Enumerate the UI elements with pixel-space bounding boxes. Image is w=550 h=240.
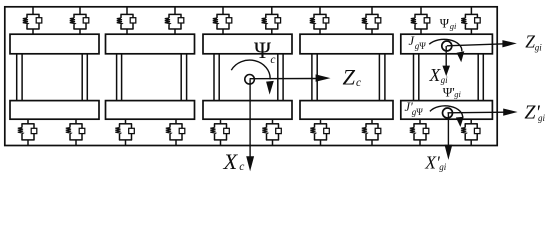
- svg-text:c: c: [356, 77, 361, 89]
- frame 2 legs (double struts): [117, 53, 187, 101]
- node: frame-5 bottom origin (circle): [443, 108, 453, 118]
- secondary suspension T3: spring-damper suspension unit at x=127: [117, 7, 136, 35]
- secondary suspension T6: spring-damper suspension unit at x=271.8: [262, 7, 281, 35]
- svg-text:Ψ: Ψ: [254, 38, 271, 63]
- pitch rotation arc psi'_gi (bottom): [430, 106, 463, 118]
- svg-text:Ψ: Ψ: [416, 107, 423, 117]
- frame 3 legs (double struts): [214, 53, 283, 101]
- axis X'_gi (arrow down): [447, 113, 449, 146]
- svg-text:gi: gi: [535, 42, 543, 52]
- node: frame-5 top origin (circle): [442, 41, 452, 51]
- svg-text:c: c: [270, 54, 275, 66]
- svg-text:Ψ: Ψ: [440, 17, 450, 31]
- secondary suspension T8: spring-damper suspension unit at x=372: [362, 7, 381, 35]
- secondary suspension T9: spring-damper suspension unit at x=421: [411, 7, 430, 35]
- frame 5 top beam: [401, 34, 493, 54]
- frame 4 legs (double struts): [312, 53, 385, 101]
- frame 1 bottom beam: [10, 101, 99, 120]
- secondary suspension T10: spring-damper suspension unit at x=471.4: [461, 7, 480, 35]
- svg-text:gi: gi: [454, 89, 461, 99]
- frame 2 top beam: [106, 34, 195, 54]
- secondary suspension T2: spring-damper suspension unit at x=80: [70, 7, 89, 35]
- axis Z_gi (arrow right): [447, 44, 505, 46]
- svg-text:gi: gi: [441, 75, 449, 85]
- node: car body reference origin (circle): [245, 75, 255, 85]
- pitch rotation arc psi_c: [231, 60, 270, 79]
- frame 4 bottom beam: [300, 101, 393, 120]
- primary suspension B3: spring-damper suspension unit at x=125.5: [115, 119, 134, 146]
- svg-text:X': X': [424, 152, 440, 172]
- secondary suspension T1: spring-damper suspension unit at x=33: [23, 7, 42, 35]
- svg-text:Z: Z: [525, 32, 535, 52]
- svg-text:gi: gi: [439, 162, 447, 172]
- primary suspension B10: spring-damper suspension unit at x=471.2: [461, 119, 480, 146]
- primary suspension B2: spring-damper suspension unit at x=76: [66, 119, 85, 146]
- frame 1 top beam: [10, 34, 99, 54]
- primary suspension B6: spring-damper suspension unit at x=272.5: [262, 119, 281, 146]
- pitch rotation arc psi_gi (top): [429, 39, 462, 51]
- axis X_gi (arrow down): [445, 46, 447, 67]
- primary suspension B5: spring-damper suspension unit at x=220.5: [210, 119, 229, 146]
- primary suspension B4: spring-damper suspension unit at x=176: [166, 119, 185, 146]
- secondary suspension T7: spring-damper suspension unit at x=320: [310, 7, 329, 35]
- frame 1 legs (double struts): [17, 53, 88, 101]
- frame 3 top beam: [203, 34, 292, 54]
- frame 3 bottom beam: [203, 101, 292, 120]
- frame 5 legs (double struts): [414, 53, 484, 101]
- frame 5 bottom beam: [401, 101, 493, 120]
- primary suspension B1: spring-damper suspension unit at x=28: [18, 119, 37, 146]
- primary suspension B8: spring-damper suspension unit at x=372: [362, 119, 381, 146]
- secondary suspension T5: spring-damper suspension unit at x=223: [213, 7, 232, 35]
- svg-text:c: c: [239, 161, 244, 173]
- svg-text:gi: gi: [538, 113, 546, 123]
- svg-text:gi: gi: [450, 21, 457, 31]
- svg-text:X: X: [429, 65, 442, 85]
- svg-text:Ψ': Ψ': [443, 85, 455, 100]
- axis Z_c (arrow right): [250, 78, 318, 80]
- svg-text:X: X: [223, 149, 239, 174]
- primary suspension B7: spring-damper suspension unit at x=320.5: [310, 119, 329, 146]
- secondary suspension T4: spring-damper suspension unit at x=175: [165, 7, 184, 35]
- car body (outer box): [5, 7, 497, 146]
- svg-text:Z: Z: [343, 64, 356, 89]
- svg-text:Ψ: Ψ: [419, 41, 426, 51]
- frame 2 bottom beam: [106, 101, 195, 120]
- axis X_c (arrow down): [249, 79, 251, 157]
- primary suspension B9: spring-damper suspension unit at x=420: [410, 119, 429, 146]
- axis Z'_gi (arrow right): [448, 111, 506, 114]
- frame 4 top beam: [300, 34, 393, 54]
